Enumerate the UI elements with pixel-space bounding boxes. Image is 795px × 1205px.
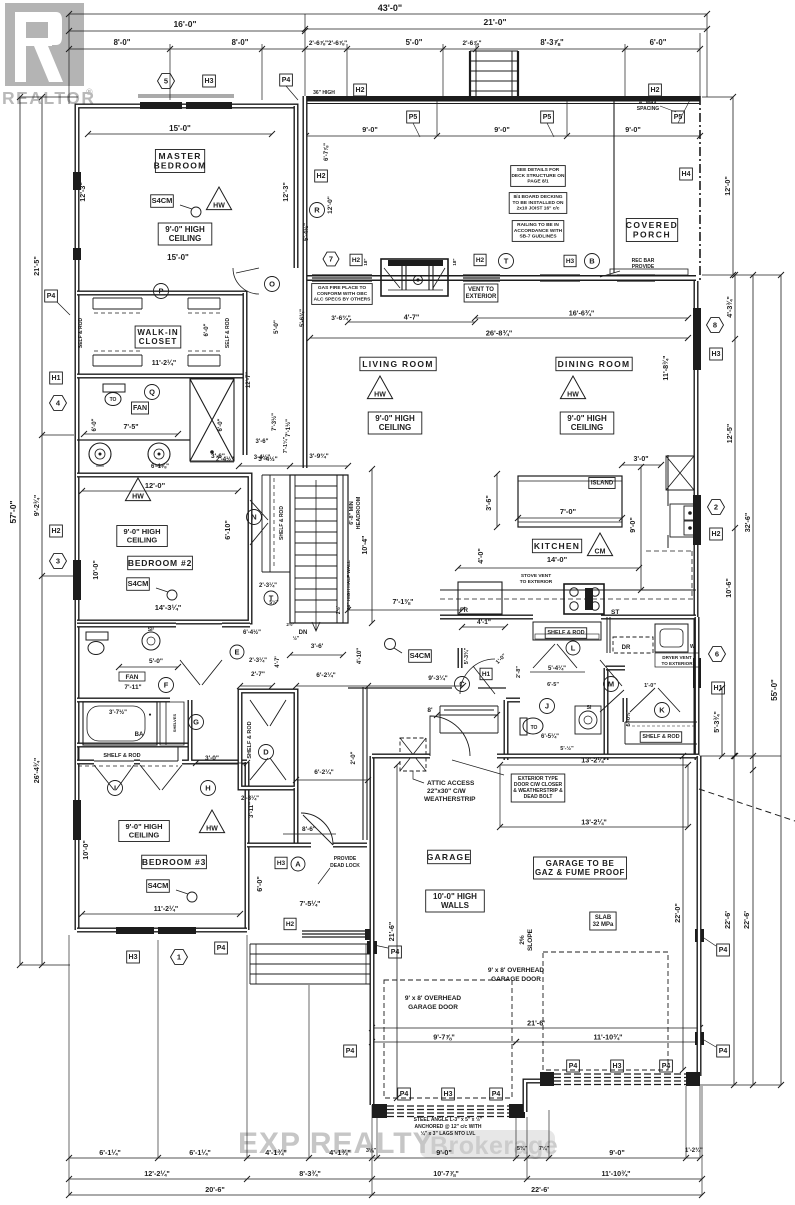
svg-text:F: F — [164, 681, 169, 690]
svg-text:SI: SI — [587, 705, 592, 711]
dims bath col — [92, 323, 224, 431]
label garage walls — [426, 890, 485, 912]
box H2 entry — [284, 918, 296, 930]
svg-text:H2: H2 — [286, 921, 295, 928]
box H3 wall top — [564, 255, 576, 267]
label covered porch — [626, 219, 679, 242]
svg-text:GARAGE DOOR: GARAGE DOOR — [491, 976, 541, 983]
svg-text:VENT TO: VENT TO — [468, 287, 494, 293]
closet shelfrod kitchen — [533, 622, 601, 640]
svg-text:P4: P4 — [719, 947, 728, 954]
dim 11-8 dining right — [661, 355, 670, 380]
kitchen stove — [564, 584, 619, 616]
svg-text:8'-0": 8'-0" — [232, 38, 249, 47]
wall bed3 bottom — [77, 928, 247, 933]
dim 55'-0'' right — [770, 272, 784, 1088]
bath2 toilet — [86, 632, 108, 655]
svg-text:H2: H2 — [356, 87, 365, 94]
svg-text:SHELF & ROD: SHELF & ROD — [247, 721, 253, 758]
dim 9-3 etc — [463, 647, 508, 665]
hex 7 hall — [323, 252, 339, 266]
svg-text:21'-6": 21'-6" — [387, 922, 396, 942]
circ Q — [145, 385, 160, 400]
svg-text:R: R — [314, 206, 320, 215]
svg-text:6'-4½": 6'-4½" — [243, 629, 261, 636]
door bed2 — [250, 500, 268, 545]
svg-text:20'-6": 20'-6" — [205, 1185, 225, 1194]
dim 57'-0'' overall left — [8, 94, 23, 968]
label bed3 ceiling — [119, 821, 170, 842]
porch note railing — [313, 90, 335, 102]
wall bath1 bottom — [77, 439, 190, 441]
shelf rod bed3 label — [78, 753, 178, 766]
wall garage top — [372, 754, 699, 759]
svg-text:STEEL ANGLE L-3" x 5" x ½": STEEL ANGLE L-3" x 5" x ½" — [414, 1116, 483, 1123]
sink powder2 — [575, 705, 601, 734]
wall kitchen right counter — [667, 455, 669, 548]
svg-text:43'-0": 43'-0" — [378, 3, 402, 13]
svg-text:CEILING: CEILING — [129, 831, 160, 840]
walkin shelf rod right — [225, 317, 231, 348]
box H3 top — [203, 75, 216, 87]
svg-text:½": ½" — [293, 635, 300, 642]
svg-text:CONFORM WITH OBC: CONFORM WITH OBC — [317, 291, 368, 297]
svg-text:8: 8 — [713, 321, 717, 330]
svg-text:9' x 8' OVERHEAD: 9' x 8' OVERHEAD — [488, 967, 544, 974]
svg-text:5'-4¼": 5'-4¼" — [548, 665, 566, 672]
wall south of kitchen — [440, 615, 696, 620]
porch post line — [613, 101, 615, 273]
smoke tri bed3 — [199, 810, 224, 833]
svg-text:7'-5": 7'-5" — [123, 424, 138, 431]
extension right — [700, 97, 781, 1085]
svg-text:3'-9¾": 3'-9¾" — [309, 452, 328, 460]
svg-text:9'-3¼": 9'-3¼" — [428, 674, 447, 682]
porch deck stair top — [470, 51, 518, 101]
svg-text:6'-0": 6'-0" — [92, 418, 98, 431]
svg-text:PROVIDE: PROVIDE — [334, 856, 357, 862]
wall bath2 mid — [77, 700, 190, 760]
svg-text:DR: DR — [622, 645, 631, 651]
dim 6-2b — [293, 768, 371, 783]
svg-text:9'-0" HIGH: 9'-0" HIGH — [165, 225, 205, 234]
svg-text:H3: H3 — [566, 258, 575, 265]
svg-text:COVERED: COVERED — [626, 220, 679, 230]
svg-text:SB-7 GUDLINES: SB-7 GUDLINES — [519, 233, 557, 239]
svg-text:ATTIC ACCESS: ATTIC ACCESS — [427, 780, 475, 787]
svg-text:FAN: FAN — [133, 405, 147, 412]
label fan bath1 — [81, 402, 181, 437]
svg-text:2'-3¼": 2'-3¼" — [241, 795, 259, 802]
garage left front wall stub — [0, 0, 1, 1]
svg-text:EXTERIOR: EXTERIOR — [466, 294, 497, 300]
svg-text:SHELF & ROD: SHELF & ROD — [642, 734, 679, 740]
svg-text:H2: H2 — [712, 531, 721, 538]
dims row mid — [256, 436, 329, 463]
kitchen fridge — [458, 582, 502, 614]
svg-text:M: M — [608, 680, 614, 689]
dim 32'-6'' right — [743, 272, 756, 773]
svg-text:CLOSET: CLOSET — [139, 337, 177, 346]
rec bar note — [600, 258, 655, 277]
door arc front — [301, 813, 333, 845]
svg-text:22'-6': 22'-6' — [531, 1185, 549, 1194]
svg-text:9'-0": 9'-0" — [628, 517, 637, 533]
window master top — [138, 95, 234, 109]
svg-text:3: 3 — [56, 557, 60, 566]
svg-text:SEE DETAILS FOR: SEE DETAILS FOR — [517, 167, 560, 173]
front wall entry — [247, 843, 367, 848]
label bed2 s4cm — [127, 578, 177, 600]
dim walkin 11-2 — [152, 359, 176, 367]
svg-text:ANCHORED @ 12" c/c WITH: ANCHORED @ 12" c/c WITH — [415, 1124, 482, 1130]
dims walkin col — [246, 309, 306, 437]
dim 4-1 hall — [459, 619, 508, 630]
svg-text:2'-6⅞": 2'-6⅞" — [462, 40, 481, 47]
svg-text:GARAGE TO BE: GARAGE TO BE — [546, 859, 615, 868]
wall hall top — [296, 96, 305, 270]
svg-text:3'-11": 3'-11" — [249, 802, 255, 818]
svg-text:TO: TO — [110, 397, 117, 403]
box H2 hall top — [315, 170, 328, 182]
wall garage left — [370, 756, 375, 1105]
box H1 right — [712, 682, 725, 694]
svg-text:18": 18" — [452, 258, 457, 265]
dim kitchen 3-0 — [619, 456, 664, 468]
svg-text:LIVING ROOM: LIVING ROOM — [362, 359, 433, 369]
box H3 d2 — [611, 1060, 624, 1072]
dims above bed2 — [151, 456, 351, 470]
svg-text:G: G — [193, 718, 199, 727]
wall foyer — [294, 788, 299, 845]
dim 13-2 lower — [497, 765, 691, 830]
linen closet tub — [160, 702, 184, 745]
svg-text:6'-8" MIN: 6'-8" MIN — [349, 501, 355, 525]
dashed diagonal right — [699, 789, 795, 821]
circ G — [189, 715, 204, 730]
svg-text:TO BE INSTALLED ON: TO BE INSTALLED ON — [513, 200, 565, 206]
svg-text:S4CM: S4CM — [152, 196, 173, 205]
svg-text:5'-0": 5'-0" — [273, 320, 280, 334]
svg-text:4'-10": 4'-10" — [357, 648, 363, 664]
smoke tri dining — [560, 376, 585, 399]
box H3 bot left — [127, 951, 140, 963]
svg-text:PAGE 8/1: PAGE 8/1 — [527, 178, 549, 184]
svg-text:9'-0": 9'-0" — [436, 1148, 452, 1157]
svg-text:2x10 JOIST 16" c/c: 2x10 JOIST 16" c/c — [517, 205, 560, 211]
svg-text:10'-0": 10'-0" — [81, 840, 90, 860]
svg-text:5: 5 — [164, 77, 168, 86]
svg-text:HW: HW — [567, 391, 579, 398]
smoke tri living — [367, 376, 392, 399]
dim 3-0 hall — [193, 755, 250, 766]
svg-text:E: E — [234, 648, 239, 657]
svg-text:7'-11": 7'-11" — [124, 684, 141, 691]
svg-text:4'-1¾": 4'-1¾" — [265, 1148, 287, 1157]
box P5 a — [407, 111, 420, 137]
svg-text:1'-2¾": 1'-2¾" — [685, 1147, 703, 1154]
circ TT — [264, 591, 278, 605]
svg-text:22"x30" C/W: 22"x30" C/W — [427, 788, 467, 795]
svg-text:SHELF & ROD: SHELF & ROD — [279, 506, 285, 540]
svg-text:H2: H2 — [651, 87, 660, 94]
svg-text:13'-2¼": 13'-2¼" — [581, 818, 607, 827]
wall master bedroom — [77, 106, 296, 268]
svg-text:21'-0": 21'-0" — [483, 17, 506, 27]
porch note3 — [512, 221, 564, 242]
wall hall cluster — [606, 617, 697, 760]
svg-text:3'-6": 3'-6" — [211, 453, 225, 460]
stairs block — [290, 475, 348, 631]
hex 5 top — [158, 74, 175, 89]
box P4 gar l — [374, 945, 401, 958]
window master left wall — [73, 172, 81, 260]
dim 43'-0'' overall top — [66, 3, 710, 17]
svg-text:55'-0": 55'-0" — [770, 679, 779, 701]
svg-text:H3: H3 — [205, 78, 214, 85]
dryer vent note — [655, 653, 699, 667]
wall closet bottom — [77, 374, 245, 379]
box H3 entry — [275, 857, 305, 871]
shower X closet — [190, 379, 234, 461]
svg-text:DEAD LOCK: DEAD LOCK — [330, 863, 360, 869]
dim 16-6 dining — [472, 309, 691, 322]
hall closet box — [440, 706, 498, 733]
label bed3 s4cm — [147, 880, 197, 902]
svg-text:9'-0": 9'-0" — [494, 125, 510, 134]
svg-text:TO EXTERIOR: TO EXTERIOR — [661, 661, 693, 666]
walkin shelves top — [93, 298, 220, 313]
svg-text:5'-3¾": 5'-3¾" — [712, 711, 721, 733]
svg-text:2'-3¼": 2'-3¼" — [249, 657, 267, 664]
svg-text:P4: P4 — [217, 945, 226, 952]
walkin shelves bottom — [93, 351, 220, 366]
svg-text:6'-1⅞": 6'-1⅞" — [151, 464, 169, 470]
svg-text:3'-6¾": 3'-6¾" — [331, 314, 350, 322]
svg-text:H2: H2 — [476, 257, 485, 264]
svg-text:6'-0": 6'-0" — [218, 418, 224, 431]
svg-text:A: A — [295, 860, 301, 869]
dim 7-5 entry — [300, 900, 321, 908]
hex 6 right — [709, 647, 726, 662]
box P4 left — [45, 290, 70, 315]
wall right side — [694, 281, 699, 756]
porch note2 — [509, 193, 567, 214]
svg-text:6'-0": 6'-0" — [255, 876, 264, 892]
dim 10'-6'' right — [724, 528, 738, 759]
overhead door dashed right — [543, 952, 668, 1070]
label garage — [427, 850, 472, 864]
svg-text:16'-0": 16'-0" — [173, 19, 196, 29]
svg-text:H3: H3 — [712, 351, 721, 358]
wall bath J room — [460, 648, 606, 760]
svg-text:10'-4": 10'-4" — [362, 536, 369, 555]
svg-text:S4CM: S4CM — [128, 579, 149, 588]
svg-text:2: 2 — [714, 503, 718, 512]
svg-text:BEDROOM #2: BEDROOM #2 — [128, 558, 192, 568]
dim 7-1 hall — [345, 599, 465, 613]
svg-text:TO: TO — [531, 725, 538, 731]
garage front step — [525, 1081, 540, 1112]
svg-text:HEADROOM: HEADROOM — [356, 496, 362, 529]
shelf rod right box — [625, 722, 697, 744]
svg-text:HW: HW — [213, 202, 225, 209]
svg-text:18": 18" — [363, 258, 368, 265]
svg-text:H2: H2 — [52, 528, 61, 535]
kitchen sink — [670, 504, 696, 537]
svg-text:GARAGE DOOR: GARAGE DOOR — [408, 1004, 458, 1011]
svg-text:12'-3": 12'-3" — [78, 182, 87, 202]
svg-text:22'-6': 22'-6' — [742, 911, 751, 929]
wall bed3 right — [245, 762, 250, 930]
svg-text:RAILING: RAILING — [314, 96, 335, 102]
smoke tri bed2 — [125, 478, 150, 501]
circ F — [159, 678, 174, 693]
box P4 gar r — [704, 938, 729, 956]
svg-text:21'-5": 21'-5" — [32, 256, 41, 276]
dim 6-2a — [293, 671, 371, 689]
svg-text:11'-2¼": 11'-2¼" — [154, 905, 178, 913]
svg-text:SLOPE: SLOPE — [527, 928, 534, 951]
svg-text:8/4 BOARD DECKING: 8/4 BOARD DECKING — [513, 194, 562, 200]
svg-text:16'-6¾": 16'-6¾" — [569, 309, 595, 318]
svg-text:P5: P5 — [409, 114, 418, 121]
porch right dashdot edge — [699, 96, 701, 281]
svg-text:5½": 5½" — [269, 599, 279, 606]
window left bed3 — [73, 800, 81, 840]
svg-text:5'-0": 5'-0" — [406, 38, 423, 47]
label master s4cm — [151, 195, 201, 217]
circ T top — [499, 254, 514, 269]
svg-text:T: T — [504, 257, 509, 266]
dim kitchen 3-6 — [484, 471, 500, 530]
exterior door note — [452, 760, 565, 802]
dim master 12-3 left — [78, 182, 87, 202]
svg-text:9'-2¾": 9'-2¾" — [32, 495, 41, 517]
svg-text:6'-2¼": 6'-2¼" — [314, 768, 333, 776]
hex 2 right — [708, 500, 725, 515]
svg-text:5¾": 5¾" — [517, 1145, 528, 1152]
circ J — [540, 699, 555, 714]
window right wall — [693, 308, 701, 688]
dim 5-4 — [530, 665, 585, 752]
porch note spacing — [637, 100, 676, 112]
dim 21'-0'' top right — [302, 17, 710, 32]
svg-text:SHELF & ROD: SHELF & ROD — [103, 753, 140, 759]
hex 8 right — [707, 318, 724, 333]
svg-text:P4: P4 — [282, 77, 291, 84]
svg-text:SHELF & ROD: SHELF & ROD — [547, 630, 584, 636]
svg-text:15'-0": 15'-0" — [169, 124, 191, 133]
svg-text:9'-0": 9'-0" — [625, 125, 641, 134]
svg-text:DN: DN — [299, 630, 308, 636]
svg-text:D: D — [263, 748, 269, 757]
label island — [515, 478, 625, 522]
svg-text:SHELVES: SHELVES — [172, 713, 177, 732]
svg-text:●: ● — [148, 712, 151, 718]
svg-text:H1: H1 — [714, 685, 723, 692]
svg-text:26'-4¾": 26'-4¾" — [32, 758, 41, 784]
box H1 left — [50, 372, 63, 384]
svg-text:Q: Q — [149, 388, 155, 397]
label living room — [360, 357, 436, 371]
hex 1 bot — [171, 950, 188, 965]
svg-text:DEAD BOLT: DEAD BOLT — [524, 794, 553, 800]
wall shelf rod band bed3 — [78, 747, 178, 761]
svg-text:O: O — [269, 280, 275, 289]
wall living top — [305, 275, 696, 281]
circ N — [247, 510, 262, 525]
dim 3-6 shaft — [190, 453, 270, 462]
dim bed2 6-10 — [223, 520, 232, 540]
svg-text:12'-0": 12'-0" — [723, 176, 732, 196]
dim 2-7 — [237, 671, 275, 689]
dim 3-11 — [249, 751, 357, 818]
dim master 15-0 top — [85, 124, 275, 137]
svg-text:I: I — [114, 784, 116, 793]
wall bed3 top — [77, 700, 247, 762]
svg-text:4'-7': 4'-7' — [275, 656, 281, 668]
front steps — [250, 944, 372, 984]
dim 11'-10 garage right — [513, 1033, 703, 1046]
svg-text:P4: P4 — [662, 1063, 671, 1070]
svg-text:13'-2¼": 13'-2¼" — [581, 756, 607, 765]
box P5 c — [672, 100, 690, 123]
svg-text:10'-6": 10'-6" — [724, 578, 733, 598]
box H2 fp r — [474, 254, 486, 266]
dim 9'-7 garage left — [369, 1033, 519, 1046]
dim 16'-0'' top left — [66, 19, 308, 34]
svg-text:7'-1¼": 7'-1¼" — [282, 436, 289, 453]
svg-text:S4CM: S4CM — [148, 881, 169, 890]
wall laundry left — [607, 617, 610, 653]
svg-text:CEILING: CEILING — [379, 423, 411, 432]
svg-text:4'-1¾": 4'-1¾" — [329, 1148, 351, 1157]
attic access box — [400, 738, 426, 771]
svg-text:7¼": 7¼" — [539, 1145, 550, 1152]
wall closet top — [77, 293, 245, 376]
label ohd right — [488, 967, 544, 983]
svg-text:14'-3¼": 14'-3¼" — [155, 603, 182, 612]
REALTOR logo mark — [2, 3, 95, 108]
label fan bath2 — [119, 672, 145, 691]
dim 4-7 fireplace — [345, 313, 478, 326]
svg-text:9'-0" HIGH: 9'-0" HIGH — [375, 414, 415, 423]
svg-text:7'-1½": 7'-1½" — [285, 419, 292, 437]
smoke tri master — [206, 187, 231, 210]
label slope — [519, 928, 534, 951]
svg-text:5'-3¾": 5'-3¾" — [463, 647, 470, 664]
wall garage right — [697, 756, 702, 1076]
dim row top small — [66, 38, 703, 52]
label garage note — [534, 857, 627, 879]
svg-text:11'-10¾": 11'-10¾" — [601, 1169, 630, 1178]
porch note1 — [511, 166, 566, 187]
svg-text:3'-0": 3'-0" — [205, 755, 219, 762]
svg-text:9'-0" HIGH: 9'-0" HIGH — [567, 414, 607, 423]
door arcs hall — [180, 644, 680, 712]
svg-text:K: K — [659, 706, 665, 715]
dim kitchen 9-0v — [628, 464, 644, 593]
dim left col segments — [32, 94, 45, 968]
toilet powder1 — [520, 718, 543, 735]
washer dryer — [613, 624, 698, 653]
svg-text:8'-6": 8'-6" — [302, 826, 316, 833]
svg-text:3'-7½": 3'-7½" — [109, 709, 127, 716]
svg-text:4'-7": 4'-7" — [404, 313, 420, 322]
svg-text:CEILING: CEILING — [127, 536, 158, 545]
svg-text:12'-0": 12'-0" — [327, 196, 334, 214]
